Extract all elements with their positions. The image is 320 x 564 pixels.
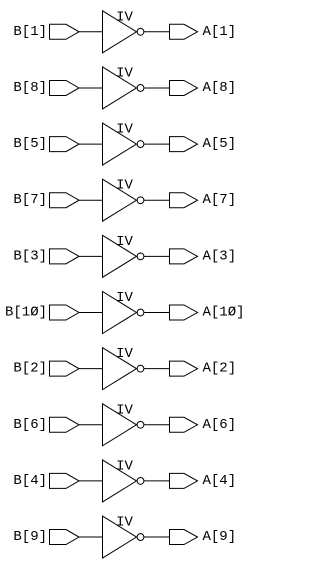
input port B[1] xyxy=(50,24,80,39)
output port A[2] xyxy=(170,361,198,376)
wire inverter output to port A[1] xyxy=(144,31,170,33)
svg-text:A[1Ø]: A[1Ø] xyxy=(203,305,245,321)
svg-text:B[1]: B[1] xyxy=(13,24,47,40)
input port B[4] xyxy=(50,473,80,488)
wire inverter output to port A[3] xyxy=(144,255,170,257)
svg-text:B[5]: B[5] xyxy=(13,136,47,152)
row 2: inverter cell for bit 8 xyxy=(13,65,236,109)
wire B[9] to inverter input xyxy=(79,536,103,538)
svg-text:IV: IV xyxy=(116,122,133,138)
wire B[6] to inverter input xyxy=(79,424,103,426)
row 6: inverter cell for bit 10 xyxy=(5,290,245,334)
output port A[3] xyxy=(170,249,198,264)
input port B[8] xyxy=(50,80,80,95)
row 7: inverter cell for bit 2 xyxy=(13,346,236,390)
svg-text:B[9]: B[9] xyxy=(13,529,47,545)
svg-text:A[4]: A[4] xyxy=(203,473,237,489)
output port A[10] xyxy=(170,305,198,320)
svg-text:B[1Ø]: B[1Ø] xyxy=(5,305,47,321)
wire B[8] to inverter input xyxy=(79,87,103,89)
svg-text:B[4]: B[4] xyxy=(13,473,47,489)
row 8: inverter cell for bit 6 xyxy=(13,402,236,446)
inverter U1 (IV) xyxy=(103,11,144,53)
svg-text:A[3]: A[3] xyxy=(203,248,237,264)
input port B[10] xyxy=(50,305,80,320)
wire inverter output to port A[2] xyxy=(144,368,170,370)
input port B[3] xyxy=(50,249,80,264)
output port A[7] xyxy=(170,193,198,208)
svg-text:A[9]: A[9] xyxy=(203,529,237,545)
row 5: inverter cell for bit 3 xyxy=(13,234,236,277)
svg-text:A[1]: A[1] xyxy=(203,24,237,40)
svg-text:IV: IV xyxy=(116,346,133,362)
wire inverter output to port A[5] xyxy=(144,143,170,145)
svg-text:B[2]: B[2] xyxy=(13,361,47,377)
svg-text:A[7]: A[7] xyxy=(203,192,237,208)
svg-text:A[8]: A[8] xyxy=(203,80,237,96)
svg-text:B[7]: B[7] xyxy=(13,192,47,208)
inverter U10 (IV) xyxy=(103,516,144,558)
svg-text:A[2]: A[2] xyxy=(203,361,237,377)
inverter U6 (IV) xyxy=(103,292,144,334)
wire B[3] to inverter input xyxy=(79,255,103,257)
inverter U7 (IV) xyxy=(103,348,144,390)
svg-text:IV: IV xyxy=(116,515,133,531)
svg-text:IV: IV xyxy=(116,402,133,418)
svg-text:B[8]: B[8] xyxy=(13,80,47,96)
wire B[2] to inverter input xyxy=(79,368,103,370)
row 1: inverter cell for bit 1 xyxy=(13,9,236,53)
wire B[7] to inverter input xyxy=(79,199,103,201)
input port B[2] xyxy=(50,361,80,376)
svg-text:IV: IV xyxy=(116,290,133,306)
wire B[10] to inverter input xyxy=(79,312,103,314)
row 9: inverter cell for bit 4 xyxy=(13,458,236,502)
wire B[4] to inverter input xyxy=(79,480,103,482)
inverter U8 (IV) xyxy=(103,404,144,446)
wire inverter output to port A[9] xyxy=(144,536,170,538)
wire inverter output to port A[8] xyxy=(144,87,170,89)
inverter U5 (IV) xyxy=(103,235,144,277)
row 3: inverter cell for bit 5 xyxy=(13,122,236,166)
output port A[4] xyxy=(170,473,198,488)
inverter U2 (IV) xyxy=(103,67,144,109)
input port B[6] xyxy=(50,417,80,432)
output port A[8] xyxy=(170,80,198,95)
svg-text:IV: IV xyxy=(116,234,133,250)
output port A[9] xyxy=(170,530,198,545)
svg-text:IV: IV xyxy=(116,9,133,25)
wire B[5] to inverter input xyxy=(79,143,103,145)
output port A[1] xyxy=(170,24,198,39)
wire inverter output to port A[10] xyxy=(144,312,170,314)
svg-text:A[6]: A[6] xyxy=(203,417,237,433)
input port B[9] xyxy=(50,530,80,545)
input port B[7] xyxy=(50,193,80,208)
svg-text:B[6]: B[6] xyxy=(13,417,47,433)
wire inverter output to port A[4] xyxy=(144,480,170,482)
svg-text:IV: IV xyxy=(116,178,133,194)
wire B[1] to inverter input xyxy=(79,31,103,33)
svg-text:IV: IV xyxy=(116,65,133,81)
svg-text:A[5]: A[5] xyxy=(203,136,237,152)
row 4: inverter cell for bit 7 xyxy=(13,178,236,222)
inverter U3 (IV) xyxy=(103,123,144,165)
wire inverter output to port A[6] xyxy=(144,424,170,426)
input port B[5] xyxy=(50,137,80,152)
svg-text:B[3]: B[3] xyxy=(13,248,47,264)
inverter U4 (IV) xyxy=(103,179,144,221)
row 10: inverter cell for bit 9 xyxy=(13,515,236,559)
output port A[5] xyxy=(170,137,198,152)
wire inverter output to port A[7] xyxy=(144,199,170,201)
inverter U9 (IV) xyxy=(103,460,144,502)
output port A[6] xyxy=(170,417,198,432)
svg-text:IV: IV xyxy=(116,458,133,474)
